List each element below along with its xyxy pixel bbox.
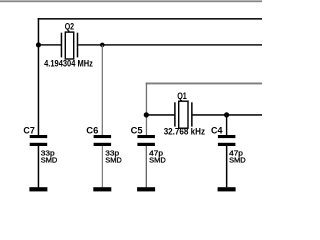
wire: C4 vertical bbox=[226, 115, 227, 135]
capacitor C5 bbox=[137, 135, 155, 187]
wire: Q2 row left segment bbox=[38, 44, 61, 45]
ground (C4) bbox=[218, 187, 236, 191]
wire: Q1 row mid-right segment bbox=[193, 114, 263, 116]
svg-text:C6: C6 bbox=[86, 126, 98, 136]
ground (C7) bbox=[29, 187, 47, 191]
wire: gray net top of Q1 box bbox=[146, 83, 262, 85]
ground (C5) bbox=[137, 187, 155, 191]
node: junction dot at C7 column bbox=[36, 42, 41, 47]
wire: C6 vertical (gray thin) bbox=[102, 45, 103, 135]
svg-text:C4: C4 bbox=[211, 126, 223, 136]
capacitor C4 bbox=[218, 135, 236, 187]
svg-text:Q1: Q1 bbox=[177, 91, 187, 101]
svg-text:C7: C7 bbox=[23, 126, 35, 136]
node: junction dot at C5 column bbox=[144, 112, 149, 117]
node: junction dot at C6 column bbox=[100, 43, 105, 48]
svg-text:C5: C5 bbox=[131, 126, 143, 136]
capacitor C6 bbox=[94, 135, 112, 187]
svg-text:SMD: SMD bbox=[229, 156, 246, 165]
wire: top net XTAL2 horizontal bbox=[38, 18, 262, 20]
crystal Q2 bbox=[61, 32, 77, 59]
wire: left vertical from top wire down to C7 bbox=[38, 18, 40, 135]
window edge (gray top line) bbox=[0, 0, 262, 2]
node: junction dot at C4 column bbox=[224, 112, 229, 117]
ground (C6) bbox=[93, 187, 111, 191]
wire: Q1 row left segment bbox=[146, 114, 174, 116]
svg-text:SMD: SMD bbox=[149, 156, 166, 165]
svg-text:SMD: SMD bbox=[105, 156, 122, 165]
svg-text:32.768 kHz: 32.768 kHz bbox=[164, 127, 206, 137]
svg-text:SMD: SMD bbox=[41, 156, 58, 165]
capacitor C7 bbox=[30, 135, 48, 187]
wire: gray vertical down to C5 bbox=[146, 83, 147, 136]
crystal Q1 bbox=[175, 101, 192, 128]
svg-text:4.194304 MHz: 4.194304 MHz bbox=[44, 58, 93, 68]
wire: Q2 row right segment to edge bbox=[78, 44, 262, 45]
svg-text:Q2: Q2 bbox=[65, 21, 74, 31]
